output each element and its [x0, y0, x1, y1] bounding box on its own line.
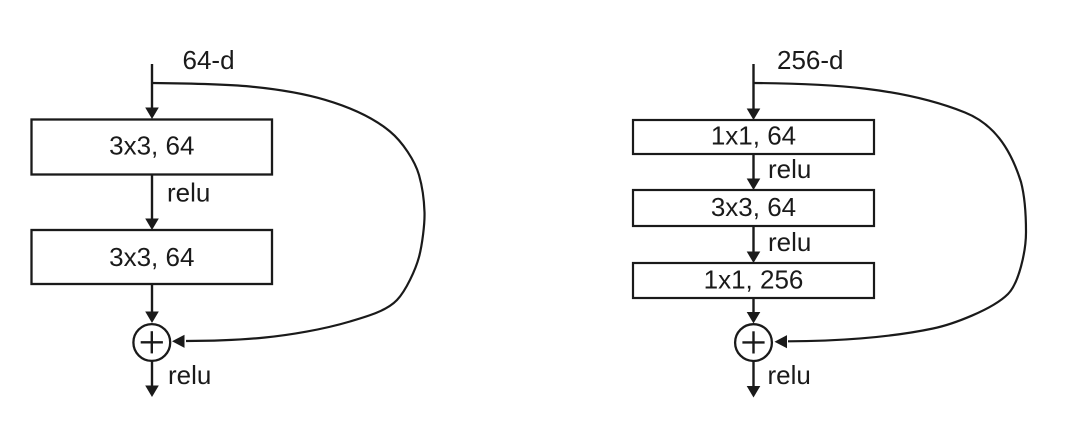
svg-text:64-d: 64-d: [183, 45, 235, 75]
svg-text:3x3, 64: 3x3, 64: [711, 192, 796, 222]
wire: arrow rbox3 -> adder: [747, 298, 761, 324]
wire: arrow rbox2 -> rbox3: [747, 226, 761, 263]
adder: circle with plus (right): [735, 324, 772, 361]
svg-text:relu: relu: [768, 154, 811, 184]
wire: output arrow (left): [145, 361, 159, 398]
wire: arrow rbox1 -> rbox2: [747, 154, 761, 190]
svg-text:relu: relu: [768, 360, 811, 390]
svg-text:3x3, 64: 3x3, 64: [109, 130, 194, 160]
adder: circle with plus (left): [133, 324, 170, 361]
layer box: 3x3, 64 (second): [32, 230, 273, 284]
svg-text:1x1, 256: 1x1, 256: [704, 264, 804, 294]
svg-text:relu: relu: [167, 177, 210, 207]
svg-text:1x1, 64: 1x1, 64: [711, 120, 796, 150]
svg-text:3x3, 64: 3x3, 64: [109, 242, 194, 272]
wire: arrow box2 -> adder: [145, 284, 159, 323]
wire: arrow box1 -> box2: [145, 175, 159, 231]
wire: output arrow (right): [747, 361, 761, 398]
node: input vertical line (64-d): [145, 64, 159, 119]
svg-text:relu: relu: [168, 360, 211, 390]
node: input vertical line (256-d): [747, 64, 761, 120]
wire: right skip connection curve: [754, 83, 1027, 348]
svg-text:relu: relu: [768, 227, 811, 257]
layer box: 1x1, 256: [633, 263, 874, 298]
layer box: 3x3, 64 (right): [633, 190, 874, 226]
layer box: 3x3, 64 (first): [32, 120, 273, 175]
wire: left skip connection curve: [152, 83, 425, 348]
svg-text:256-d: 256-d: [777, 45, 844, 75]
layer box: 1x1, 64: [633, 120, 874, 154]
